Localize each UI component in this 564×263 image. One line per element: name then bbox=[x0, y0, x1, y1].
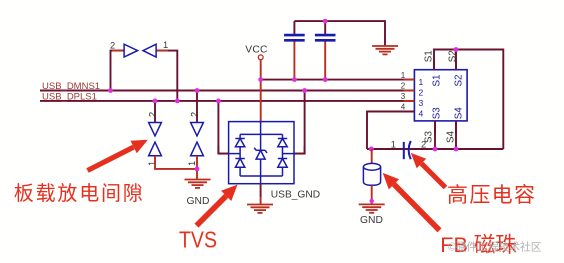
wire S2 to loop bbox=[455, 50, 457, 70]
wire D3 bottom to ground bbox=[196, 156, 198, 179]
junction S4 / row bbox=[454, 147, 459, 152]
wire TVS bottom to USB_GND bbox=[260, 184, 262, 197]
junction C2 top bbox=[323, 19, 328, 24]
wire USB_DMNS1 net bbox=[40, 90, 414, 92]
pin 4 stub bbox=[404, 111, 415, 113]
spark gap D1 (horizontal, between D- and D+) bbox=[124, 44, 156, 57]
ground GND (spark gaps) bbox=[185, 180, 211, 188]
junction DMNS/left gap bbox=[108, 88, 113, 93]
VCC port circle bbox=[258, 55, 263, 60]
wire D2 bottom over to D3 bottom bbox=[155, 156, 197, 169]
svg-text:2: 2 bbox=[419, 88, 424, 98]
svg-text:USB_GND: USB_GND bbox=[271, 189, 320, 200]
svg-text:1: 1 bbox=[419, 77, 424, 87]
svg-text:S1: S1 bbox=[432, 75, 443, 87]
junction DPLS/right gap bbox=[175, 99, 180, 104]
spark gap D2 (vertical left) bbox=[149, 123, 162, 156]
svg-text:GND: GND bbox=[360, 215, 383, 226]
wire row down to ferrite bead bbox=[371, 149, 373, 164]
annotation arrow to spark gaps bbox=[86, 140, 148, 173]
diode lower-left bbox=[235, 158, 244, 160]
svg-text:USB_DPLS1: USB_DPLS1 bbox=[42, 91, 97, 102]
svg-text:USB_DMNS1: USB_DMNS1 bbox=[42, 81, 100, 92]
diode upper-right bbox=[278, 138, 287, 140]
pin 2 stub bbox=[404, 90, 415, 92]
svg-text:GND: GND bbox=[187, 196, 210, 207]
pin stub right of spark gap D1 bbox=[156, 50, 168, 52]
annotation arrow to C3 bbox=[411, 153, 448, 189]
wire cap tops to ground bbox=[294, 21, 385, 45]
pin S4 bottom bbox=[455, 121, 457, 134]
spark gap D3 (vertical right) bbox=[191, 123, 204, 156]
svg-text:S2: S2 bbox=[454, 75, 465, 87]
capacitor C2 bbox=[315, 21, 336, 80]
junction DMNS / D3 bbox=[195, 88, 200, 93]
wire bottom row bbox=[367, 148, 503, 150]
wire from horizontal spark gap down to DPLS bbox=[156, 51, 177, 101]
svg-text:S4: S4 bbox=[454, 107, 465, 120]
junction at FB ground bbox=[370, 199, 374, 203]
wire top loop S1/S2 to right bbox=[434, 50, 503, 150]
svg-text:S1: S1 bbox=[424, 50, 435, 62]
pin stub left of spark gap D1 bbox=[112, 50, 124, 52]
junction DMNS / TVS drop bbox=[302, 88, 307, 93]
svg-text:S3: S3 bbox=[432, 107, 443, 120]
wire pin4 to bottom row bbox=[367, 112, 414, 150]
capacitor C3 plates bbox=[403, 142, 405, 159]
junction C2 bottom / VCC rail bbox=[323, 77, 328, 82]
svg-text:2: 2 bbox=[421, 139, 426, 149]
pin S2 top bbox=[455, 60, 457, 70]
ferrite bead FB1 bbox=[363, 163, 380, 185]
svg-text:1: 1 bbox=[163, 40, 168, 50]
junction D2/D3 bottoms bbox=[195, 167, 200, 172]
svg-text:VCC: VCC bbox=[245, 44, 268, 55]
svg-text:2: 2 bbox=[189, 112, 199, 117]
junction S2 / loop bbox=[454, 47, 459, 52]
wire S4 to row bbox=[455, 121, 457, 149]
capacitor C1 bbox=[284, 21, 305, 80]
svg-text:高压电容: 高压电容 bbox=[447, 184, 535, 207]
svg-text:4: 4 bbox=[401, 103, 406, 112]
svg-text:3: 3 bbox=[419, 98, 424, 108]
svg-text:2: 2 bbox=[110, 41, 115, 51]
diode upper-left bbox=[235, 138, 244, 140]
pin S1 top bbox=[433, 60, 435, 70]
annotation arrow to TVS bbox=[195, 185, 238, 228]
wire USB_DPLS1 net bbox=[40, 100, 414, 102]
ground GND (FB) bbox=[359, 204, 385, 212]
IC U1 common mode filter bbox=[414, 70, 467, 121]
TVS diode array U2 bbox=[229, 122, 294, 184]
ground (top right) bbox=[372, 46, 398, 54]
svg-text:1: 1 bbox=[391, 139, 396, 149]
wire VCC rail to pin 1 bbox=[261, 79, 415, 81]
pin S3 bottom bbox=[434, 121, 436, 134]
wire VCC drop to TVS bbox=[260, 60, 262, 122]
wire from DMNS up to horizontal spark gap bbox=[111, 51, 125, 91]
wire DPLS down to spark gap D2 bbox=[154, 101, 156, 123]
junction VCC rail / VCC drop bbox=[258, 77, 263, 82]
wire S3 to row bbox=[434, 121, 436, 149]
ground USB_GND bbox=[247, 205, 273, 213]
junction DPLS / TVS drop bbox=[216, 99, 221, 104]
svg-text:©硬件工程技术社区: ©硬件工程技术社区 bbox=[448, 240, 542, 254]
annotation arrow to FB bbox=[383, 173, 442, 233]
diode lower-right bbox=[278, 158, 287, 160]
junction S3 / row bbox=[433, 147, 438, 152]
svg-text:1: 1 bbox=[401, 71, 406, 80]
svg-text:2: 2 bbox=[401, 82, 406, 91]
wire DMNS down to TVS right pin bbox=[304, 146, 306, 154]
svg-text:2: 2 bbox=[147, 112, 157, 117]
wire DMNS down to spark gap D3 bbox=[196, 91, 198, 123]
svg-text:4: 4 bbox=[419, 108, 424, 118]
svg-text:1: 1 bbox=[187, 161, 197, 166]
junction C1 bottom / VCC rail bbox=[292, 77, 297, 82]
pin 1 stub bbox=[404, 79, 415, 81]
pin 3 stub bbox=[404, 100, 415, 102]
junction DPLS / D2 bbox=[153, 99, 158, 104]
svg-text:TVS: TVS bbox=[179, 226, 217, 252]
zener center bbox=[260, 134, 262, 150]
svg-text:3: 3 bbox=[401, 92, 406, 101]
svg-text:S4: S4 bbox=[446, 130, 457, 143]
junction FB / row bbox=[369, 147, 374, 152]
svg-text:板载放电间隙: 板载放电间隙 bbox=[14, 182, 143, 205]
wire DPLS down to TVS left pin bbox=[217, 146, 219, 154]
wire ferrite bead to ground bbox=[371, 185, 373, 204]
